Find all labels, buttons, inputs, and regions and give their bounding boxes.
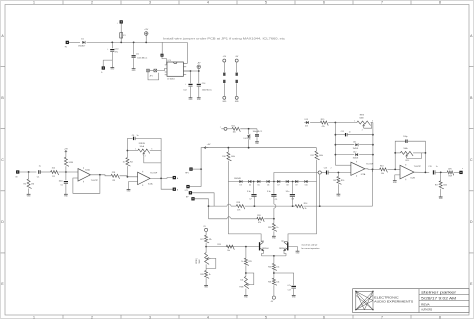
wire bus1 R14 to IC2A output riser	[304, 205, 373, 207]
resistor R11 10k	[232, 127, 240, 132]
resistor R29 10R output	[447, 171, 454, 176]
svg-text:100k: 100k	[443, 184, 447, 186]
wire Q1 collector	[261, 241, 263, 244]
svg-text:1u: 1u	[39, 166, 41, 168]
transistor Q2 2N3904	[287, 242, 288, 250]
wire FREQ to R28	[205, 264, 207, 270]
wire Q1 emitter to rail	[262, 251, 264, 256]
wire down to C11	[133, 42, 135, 54]
wire lower node left to pad	[103, 60, 112, 68]
svg-text:3: 3	[149, 0, 151, 4]
capacitor C15 1n	[345, 133, 347, 136]
svg-text:10k: 10k	[276, 281, 279, 283]
svg-text:1N4148: 1N4148	[250, 134, 252, 140]
node junctions res branches left	[335, 134, 337, 136]
svg-text:D3: D3	[240, 185, 242, 187]
capacitor C7 3.3n	[251, 194, 256, 196]
svg-text:D4: D4	[249, 185, 251, 187]
branch wire D12	[335, 154, 354, 156]
node junction N1	[248, 128, 250, 130]
+9V supply arrow filter bias	[204, 147, 208, 149]
wire IC3 to C12 node	[183, 71, 190, 83]
wire fuse to pad	[120, 24, 122, 32]
ground below C17	[292, 294, 296, 296]
pad JP1 top	[161, 54, 164, 57]
capacitor C11 100n MLCC	[132, 55, 136, 57]
svg-text:1: 1	[33, 315, 35, 319]
wire R11 to node N1	[240, 128, 257, 130]
wire R27 to freq node	[205, 243, 207, 253]
pad battery +	[120, 20, 123, 23]
svg-text:47k: 47k	[237, 209, 240, 211]
wire rail end down to IC3 pin8	[183, 42, 187, 63]
node junction at +9V riser	[145, 42, 147, 44]
capacitor C1 input coupling	[38, 170, 40, 174]
wire down to C5	[65, 172, 67, 180]
svg-text:C5: C5	[60, 184, 62, 186]
wire R29 to OUT pad	[454, 171, 460, 173]
svg-text:TL072P: TL072P	[91, 180, 99, 182]
circle pad reference node	[224, 127, 227, 130]
wire R3 to IC1B input	[120, 176, 138, 177]
svg-text:2: 2	[91, 0, 93, 4]
diode D14 on N1 vertical	[248, 129, 250, 134]
ground below C5	[64, 193, 68, 195]
wire R5 to +9V arrow	[65, 153, 67, 157]
svg-text:1u: 1u	[137, 135, 139, 137]
diode D3 ladder	[239, 180, 242, 183]
resistor R13 10k series	[380, 168, 388, 173]
diode D8 ladder	[286, 180, 289, 183]
svg-text:3: 3	[149, 315, 151, 319]
ground IC2B plus	[393, 180, 397, 182]
wire IC2B plus to ground	[395, 175, 400, 181]
svg-text:1N4148: 1N4148	[353, 158, 359, 160]
svg-text:D6: D6	[267, 185, 269, 187]
diode D6 ladder	[267, 180, 270, 183]
svg-text:1k: 1k	[276, 227, 278, 229]
svg-text:4: 4	[207, 315, 209, 319]
node junction at C11	[133, 42, 135, 44]
node junction bus1 start	[208, 205, 210, 207]
svg-text:3.3n: 3.3n	[247, 191, 251, 193]
branch wire C15	[335, 134, 345, 136]
svg-text:D9: D9	[295, 185, 297, 187]
wire C14 to ground	[198, 87, 200, 98]
wire down to GND pad	[102, 60, 104, 66]
feedback left vertical IC2B	[395, 141, 405, 169]
svg-text:8: 8	[439, 315, 441, 319]
svg-text:TL072P: TL072P	[366, 164, 374, 166]
resistor R17 100k bleed	[440, 172, 442, 180]
JP1 outline loop wire	[148, 72, 159, 80]
node junction bus2 center	[273, 218, 275, 220]
node junction C8 on bus1	[292, 205, 294, 207]
wire BP line from ladder center	[274, 173, 318, 182]
supply rail top circle pad -9V	[235, 59, 238, 62]
svg-text:C19: C19	[428, 166, 431, 168]
wire bus1 to R18	[231, 205, 236, 207]
svg-text:D8: D8	[286, 185, 288, 187]
svg-text:JP1: JP1	[150, 75, 153, 77]
svg-text:IC1A: IC1A	[85, 168, 90, 171]
-9V power symbol	[197, 65, 201, 69]
trimmer R26 10k	[244, 276, 249, 288]
resistor R25 base divider	[244, 258, 249, 265]
wire bus1 start segment	[209, 205, 228, 207]
svg-text:47u: 47u	[115, 52, 118, 54]
pad OUT	[459, 171, 462, 174]
pad drive output B	[173, 188, 176, 191]
svg-text:D11: D11	[353, 141, 356, 143]
svg-text:1N5817: 1N5817	[78, 46, 86, 48]
svg-text:10k: 10k	[381, 173, 384, 175]
svg-text:1k: 1k	[123, 162, 125, 164]
node junction IC1B output	[160, 178, 162, 180]
svg-text:Q2: Q2	[281, 241, 283, 243]
wire R25 to trimmer node	[245, 265, 247, 276]
wire C19 to out node	[435, 171, 447, 173]
wire BP2 to bus2 riser	[195, 199, 209, 219]
wire C1 to R1	[41, 171, 51, 173]
ladder left vertical with resistor R10	[227, 148, 229, 152]
wire base node down	[245, 247, 247, 259]
svg-text:R16: R16	[341, 180, 344, 182]
wire IC1B output	[150, 177, 174, 180]
svg-text:C13: C13	[324, 168, 327, 170]
transistor Q1 2N3904	[259, 242, 260, 250]
svg-text:D5: D5	[258, 185, 260, 187]
wire C10 to lower node	[111, 52, 113, 60]
hop bus1 over ladder vertical	[227, 204, 231, 206]
diode D1 1N5817	[82, 41, 85, 44]
resistor R16 1M to ground	[337, 173, 339, 177]
wire J1 to D1	[69, 41, 80, 43]
pad drive output A	[173, 176, 176, 179]
feedback wire IC1A	[73, 175, 100, 194]
wire R13 to IC2B	[387, 168, 400, 170]
svg-text:2: 2	[362, 129, 363, 131]
+9V supply arrow input bias	[65, 150, 67, 153]
op-amp IC1A buffer	[78, 169, 91, 182]
wire rail +9V to ladder left top	[209, 147, 317, 149]
op-amp IC2A resonance buffer	[351, 162, 365, 175]
wire down to pad B	[161, 178, 174, 189]
capacitor C5 100n bias bypass	[64, 181, 68, 183]
diode D7 ladder	[277, 180, 280, 183]
wire R31 to -9V circle	[273, 285, 275, 296]
wire HP1 pad to riser	[193, 168, 202, 170]
svg-text:R27: R27	[200, 239, 203, 241]
svg-text:DRIVE: DRIVE	[139, 143, 146, 145]
svg-text:8: 8	[439, 0, 441, 4]
node junction IC2B output feedback	[425, 172, 427, 174]
node junction IC1A output	[99, 174, 101, 176]
resistor R14 1k in bus1	[295, 205, 303, 210]
svg-text:D13: D13	[305, 119, 308, 121]
potentiometer FREQ	[205, 253, 210, 265]
svg-text:C17: C17	[288, 290, 291, 292]
wire tap to C8	[292, 182, 294, 194]
svg-text:5: 5	[265, 315, 267, 319]
header pin upper	[236, 73, 238, 76]
node junction 1M bias	[338, 172, 340, 174]
svg-text:1n: 1n	[349, 131, 351, 133]
hop bus2 over ladder vertical	[227, 217, 231, 219]
ground IC1B plus input	[127, 189, 131, 191]
svg-text:R10: R10	[222, 156, 225, 158]
svg-text:100n MLCC: 100n MLCC	[253, 131, 263, 133]
wire main +9V rail	[87, 41, 188, 43]
svg-text:R30: R30	[268, 267, 271, 269]
BP signal circle pad	[318, 171, 321, 174]
wire top feedback rail	[127, 137, 132, 139]
svg-text:R24: R24	[217, 244, 220, 246]
branch wire D11	[335, 144, 354, 146]
svg-text:2: 2	[91, 315, 93, 319]
resistor R24 10k base	[226, 245, 234, 250]
wire C17 to ground	[293, 289, 295, 296]
capacitor C4 100n MLCC	[255, 134, 259, 136]
pad GND test point	[102, 66, 105, 69]
node junction resonance tap on bus1	[319, 205, 321, 207]
node junction rail at ladder left	[228, 147, 230, 149]
node junction D14 rail	[248, 147, 250, 149]
wire ladder right vertical down to Q2	[288, 182, 317, 242]
ground below R16	[337, 193, 341, 195]
wire C5 to ground	[65, 184, 67, 194]
wire VOL row left	[395, 152, 400, 154]
svg-text:100p: 100p	[403, 136, 407, 138]
svg-text:1k: 1k	[305, 208, 307, 210]
svg-text:3.3M: 3.3M	[69, 162, 74, 164]
svg-text:47k: 47k	[258, 222, 261, 224]
wire riser HP to rail corner	[201, 148, 204, 187]
wire Q2 emitter to rail	[284, 251, 286, 256]
wire FREQ wiper wrap	[206, 258, 216, 268]
svg-text:2N3904: 2N3904	[262, 248, 269, 250]
frame row letters left	[1, 34, 4, 286]
diode D11 clip	[355, 143, 358, 146]
svg-text:1u: 1u	[436, 166, 438, 168]
svg-text:C9: C9	[275, 199, 277, 201]
ground below FREQ chain	[204, 284, 208, 286]
svg-text:C15: C15	[341, 131, 344, 133]
svg-text:IC2A: IC2A	[361, 173, 366, 176]
svg-text:C10: C10	[115, 49, 118, 51]
node junction ladder tap C9 center	[273, 181, 275, 183]
svg-text:10k: 10k	[227, 250, 230, 252]
node junction pot left	[127, 150, 129, 152]
wire res left vertical into IC2A inverting	[335, 164, 351, 166]
svg-text:2: 2	[331, 168, 332, 170]
svg-text:+9V: +9V	[144, 29, 148, 31]
wire between JP1 pads and IC	[149, 70, 154, 72]
header pin lower	[236, 80, 238, 83]
potentiometer VOL	[400, 151, 413, 156]
-9V circle pad tail	[272, 296, 275, 299]
node junction C7 on bus1	[254, 205, 256, 207]
wire IC1B plus input to ground	[129, 182, 138, 190]
svg-text:3.3n: 3.3n	[267, 191, 271, 193]
capacitor C12 charge pump	[188, 83, 192, 85]
svg-text:3.3n: 3.3n	[286, 191, 290, 193]
res network left vertical	[334, 123, 336, 166]
hop C9 wire over bus1	[274, 204, 276, 208]
capacitor C14 100n MLCC	[197, 83, 201, 85]
svg-text:10k: 10k	[52, 168, 55, 170]
wire emitter tail down	[273, 256, 275, 264]
svg-text:D7: D7	[277, 185, 279, 187]
svg-text:Install wire jumper under PCB: Install wire jumper under PCB at JP1 if …	[163, 37, 286, 40]
svg-text:-9V: -9V	[197, 63, 201, 65]
resistor R4 feedback lower	[126, 158, 131, 167]
svg-text:C12: C12	[183, 90, 186, 92]
wire rail corner down to JP1 pad	[161, 42, 163, 53]
diode D10 ladder	[305, 180, 308, 183]
svg-text:C11: C11	[136, 53, 139, 55]
svg-text:D14: D14	[243, 138, 246, 140]
wire up to R4	[126, 166, 128, 177]
svg-text:for correct operation: for correct operation	[302, 247, 320, 250]
svg-text:1M: 1M	[31, 184, 34, 186]
node junction at C10	[111, 42, 113, 44]
resistor R18 47k in bus1	[236, 205, 245, 210]
capacitor C8 3.3n	[290, 194, 295, 196]
svg-text:AUTHORS: AUTHORS	[421, 309, 432, 312]
svg-text:D13: D13	[305, 125, 308, 127]
svg-text:D12: D12	[353, 151, 356, 153]
svg-text:R31: R31	[268, 281, 271, 283]
node junction HP riser	[200, 168, 202, 170]
node junction output bleed	[440, 172, 442, 174]
svg-text:2N3904: 2N3904	[279, 248, 286, 250]
svg-text:IC1A: IC1A	[148, 182, 153, 185]
resistor R5 3.3M to +9V	[64, 157, 69, 166]
node junction at F1 riser	[120, 42, 122, 44]
node junction IC1B inverting input	[127, 176, 129, 178]
pad LP1 filter input	[186, 185, 189, 188]
svg-text:6: 6	[323, 315, 325, 319]
svg-text:4: 4	[207, 0, 209, 4]
svg-text:100k: 100k	[319, 155, 323, 157]
diode D5 ladder	[257, 180, 260, 183]
capacitor C19 output coupling	[432, 170, 434, 174]
op IC3 LT1054 body	[167, 62, 183, 76]
wire pot left lead	[127, 150, 137, 152]
ground below C14	[197, 97, 201, 99]
svg-text:1: 1	[33, 0, 35, 4]
svg-text:10k: 10k	[240, 279, 243, 281]
ground center ladder	[272, 235, 276, 237]
pad BP1 filter input	[189, 191, 192, 194]
wire C6 to right vertical	[135, 138, 161, 178]
svg-text:R19: R19	[257, 215, 260, 217]
supply rail top circle pad +9V	[223, 59, 226, 62]
svg-text:REVA: REVA	[421, 302, 430, 306]
node junction emitter tail	[273, 255, 275, 257]
wire R15 to res network	[328, 122, 335, 124]
IC3 left pins	[165, 64, 167, 66]
svg-text:TL072P: TL072P	[150, 172, 158, 174]
svg-text:TL072P: TL072P	[414, 166, 422, 168]
op-amp IC1B drive amp	[138, 172, 151, 185]
supply rail bottom circle pad	[235, 96, 238, 99]
svg-text:LT1054: LT1054	[167, 78, 175, 80]
svg-text:R13: R13	[380, 166, 383, 168]
res network right vertical	[372, 123, 374, 170]
wire RES wiper wrap	[364, 123, 372, 129]
wire top circle to header	[223, 62, 225, 72]
node junction IC2A output	[372, 169, 374, 171]
ground below trimmer	[244, 294, 248, 296]
svg-text:R15: R15	[321, 119, 324, 121]
resistor R2 1M to ground	[27, 179, 32, 188]
frame column numbers bottom	[33, 315, 441, 319]
svg-text:R14: R14	[304, 203, 307, 205]
svg-text:7: 7	[381, 0, 383, 4]
wire C4 to ground	[256, 137, 258, 142]
wire BP circle down to bus1	[319, 174, 321, 206]
pad BP2 filter input	[191, 197, 194, 200]
capacitor C10 47u	[110, 49, 114, 51]
wire ladder left vertical down to Q1	[228, 182, 261, 242]
wire C11 to ground	[133, 58, 135, 68]
svg-text:47k: 47k	[209, 239, 212, 241]
node junction input bias	[28, 171, 30, 173]
frame row letters right	[470, 34, 473, 286]
svg-text:4.7u: 4.7u	[287, 285, 291, 287]
wire IC2A output	[365, 168, 380, 171]
capacitor C18 100p feedback	[405, 140, 407, 143]
svg-text:100n MLCC: 100n MLCC	[202, 89, 213, 91]
resistor R31 tail lower	[272, 278, 277, 285]
svg-text:D10: D10	[305, 185, 308, 187]
svg-text:15k: 15k	[276, 267, 279, 269]
connector pad J1 9V input	[66, 41, 69, 44]
wire pot right lead	[150, 150, 161, 152]
capacitor C9 3.3n	[271, 194, 276, 196]
wire C7 to bus1	[253, 197, 255, 207]
svg-text:LP1: LP1	[185, 190, 188, 192]
resistor R3 22K series	[111, 174, 120, 179]
node junction CV base	[205, 246, 207, 248]
ground below R2	[27, 193, 31, 195]
wire N1 stub to C4	[256, 129, 258, 134]
wire pot wiper to output vertical	[144, 156, 161, 163]
svg-text:100n MLCC: 100n MLCC	[137, 58, 148, 60]
node junction bias divider	[65, 171, 67, 173]
svg-text:6: 6	[323, 0, 325, 4]
svg-text:C7: C7	[249, 199, 251, 201]
svg-text:R20: R20	[268, 227, 271, 229]
resistor R27 47k CV	[205, 235, 210, 243]
title block divider	[418, 289, 420, 313]
wire opamp output	[91, 175, 112, 176]
pad HP1 filter input	[189, 167, 192, 170]
resistor R15 47k resonance	[320, 121, 328, 126]
svg-text:C6: C6	[132, 135, 134, 137]
wire BP circle to C13	[321, 172, 326, 174]
svg-text:HP1: HP1	[185, 173, 189, 175]
svg-text:5/28/17 9:02 AM: 5/28/17 9:02 AM	[421, 297, 457, 301]
wire down to R2	[28, 172, 30, 179]
wire R19 to center node	[264, 218, 274, 220]
wire circle to R11	[227, 128, 232, 130]
wire output down to bus1	[372, 169, 374, 206]
wire input to C1	[19, 171, 36, 173]
ground below C11	[132, 68, 136, 70]
